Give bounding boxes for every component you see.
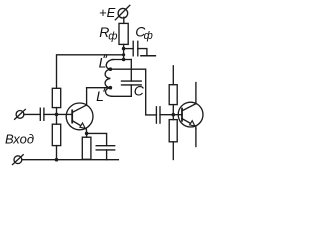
- wire C1 to base VT1: [44, 113, 72, 115]
- node tap L2: [109, 67, 113, 71]
- wire Ce to rail: [106, 150, 108, 160]
- wire tap L2 to coupling cap: [110, 69, 156, 115]
- resistor RF: [119, 23, 128, 44]
- node B (tank top): [122, 58, 126, 62]
- wire feed to R1 (left): [57, 55, 124, 89]
- node rail R2: [55, 158, 59, 162]
- input terminal lower: [13, 155, 24, 165]
- capacitor Ce: [96, 146, 115, 150]
- resistor R1: [52, 88, 60, 107]
- ground: [141, 55, 156, 57]
- label L2: [99, 55, 107, 71]
- resistor R4: [169, 120, 177, 142]
- wire emitter to Ce: [87, 133, 107, 145]
- wire C2 to base VT2: [160, 114, 182, 116]
- transistor VT1: [66, 103, 93, 133]
- svg-text:ф: ф: [144, 30, 153, 42]
- wire R3 top: [172, 66, 174, 85]
- transistor VT2: [178, 102, 203, 128]
- resistor R2: [52, 124, 60, 145]
- svg-text:L: L: [99, 55, 107, 71]
- node emitter VT1: [85, 132, 89, 136]
- svg-text:+E: +E: [99, 5, 116, 20]
- wire collector VT2 up: [195, 83, 197, 104]
- label RF: [99, 24, 117, 42]
- wire R3 to node B2: [172, 105, 174, 120]
- wire terminal to RF: [123, 17, 125, 23]
- tank top wire: [112, 59, 131, 61]
- svg-text:Вход: Вход: [5, 131, 34, 146]
- ground rail: [22, 159, 119, 161]
- node B2: [172, 113, 176, 117]
- resistor Re: [82, 137, 91, 159]
- wire CF to ground: [138, 49, 147, 56]
- wire collector to coil tap L': [87, 87, 111, 89]
- wire input to C1: [24, 113, 40, 115]
- svg-text:C: C: [134, 82, 145, 98]
- capacitor CF: [133, 41, 138, 56]
- node B1: [55, 113, 59, 117]
- node A: [122, 47, 126, 51]
- node feed T: [122, 53, 125, 56]
- coupling capacitor C2: [156, 107, 160, 123]
- svg-text:L: L: [96, 88, 104, 104]
- capacitor C1: [40, 108, 44, 120]
- power terminal +E: [115, 5, 130, 19]
- wire cap C to tank bottom: [130, 85, 132, 96]
- wire R2 to rail: [56, 146, 58, 160]
- input terminal upper: [15, 109, 26, 119]
- capacitor C: [122, 81, 142, 85]
- tank bottom wire: [112, 95, 132, 97]
- wire R4 down: [172, 142, 174, 160]
- inductor L: [105, 60, 113, 97]
- wire top to cap C: [130, 60, 132, 82]
- wire node A to CF: [124, 48, 134, 50]
- resistor R3: [169, 85, 177, 105]
- wire RF bottom to node A: [123, 44, 125, 59]
- wire emitter VT2 down: [195, 129, 197, 147]
- svg-text:ф: ф: [108, 31, 117, 43]
- label L1: [96, 88, 105, 104]
- wire R1 to node B1: [56, 108, 58, 125]
- wire collector VT1 up: [86, 88, 88, 105]
- node tap L1: [109, 86, 113, 90]
- wire emitter to Re: [86, 133, 88, 137]
- label CF: [135, 23, 153, 41]
